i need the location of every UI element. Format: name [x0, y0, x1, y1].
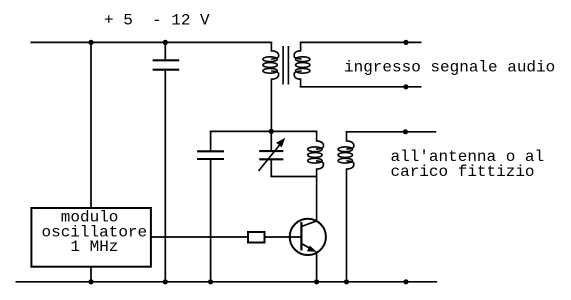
junction dot bottom rail x=405.9 — [403, 279, 408, 284]
svg-text:ingresso segnale audio: ingresso segnale audio — [344, 59, 555, 77]
wire secondary top stub — [300, 41, 422, 43]
wire emitter to bottom rail — [316, 252, 318, 282]
variable capacitor top lead — [270, 131, 272, 150]
wire oscillator output to resistor — [151, 236, 247, 238]
junction dot bottom rail x=316.6 — [314, 279, 319, 284]
transistor Q1 (NPN) circle — [290, 219, 326, 255]
label "all'antenna o al / carico fittizio" — [391, 148, 545, 181]
junction dot secondary top stub — [403, 40, 408, 45]
resistor (base, box style) — [248, 232, 265, 243]
wire secondary bottom stub — [300, 86, 422, 88]
wire vertical x=91 from top rail to oscillator box — [90, 42, 92, 208]
junction dot secondary bottom stub — [403, 84, 408, 89]
inductor L1 (tank) coil — [308, 131, 324, 221]
wire antenna stub y=131.8 — [346, 131, 437, 133]
oscillator module box U1 — [31, 208, 150, 267]
capacitor (supply bypass) plates — [153, 60, 180, 69]
capacitor (supply bypass) top lead — [164, 42, 166, 59]
label "modulo oscillatore 1 MHz" — [42, 208, 148, 256]
junction dot tank top node — [269, 129, 274, 134]
inductor L2 (antenna coupling) coil — [338, 132, 354, 282]
junction dot bottom rail x=165.3 — [163, 279, 168, 284]
capacitor (supply bypass) bottom lead to bottom rail — [164, 71, 166, 282]
svg-text:1 MHz: 1 MHz — [70, 238, 118, 256]
transformer T1 primary coil — [263, 42, 279, 131]
wire resistor to transistor base — [266, 236, 302, 238]
variable capacitor bottom lead — [270, 160, 272, 176]
variable capacitor plates — [259, 151, 283, 159]
transistor Q1 base bar — [300, 222, 302, 250]
variable capacitor arrow — [259, 138, 286, 171]
transformer T1 secondary coil — [294, 42, 310, 86]
wire vertical x=91 from oscillator box to bottom rail — [90, 267, 92, 282]
capacitor (tank, fixed) plates — [197, 151, 224, 159]
transformer T1 core — [283, 46, 288, 85]
junction dot top rail x=165.3 — [163, 40, 168, 45]
capacitor (tank, fixed) top lead — [210, 131, 212, 150]
wire top supply rail y=42.4 — [30, 41, 272, 43]
junction dot bottom rail x=210.6 — [208, 279, 213, 284]
junction dot antenna stub — [403, 129, 408, 134]
junction dot top rail x=91 — [88, 40, 93, 45]
transistor Q1 emitter stroke with arrow — [301, 244, 316, 252]
wire tank bottom y=176.5 — [270, 176, 317, 178]
wire bottom ground rail y=281.8 — [16, 281, 438, 283]
svg-text:carico fittizio: carico fittizio — [391, 163, 535, 181]
capacitor (tank, fixed) bottom lead to bottom rail — [210, 160, 212, 282]
wire tank top y=131.4 — [210, 130, 318, 132]
junction dot bottom rail x=91 — [88, 279, 93, 284]
svg-text:+ 5 - 12 V: + 5 - 12 V — [104, 12, 210, 30]
transistor Q1 collector stroke — [301, 221, 316, 227]
junction dot bottom rail x=346.5 — [344, 279, 349, 284]
